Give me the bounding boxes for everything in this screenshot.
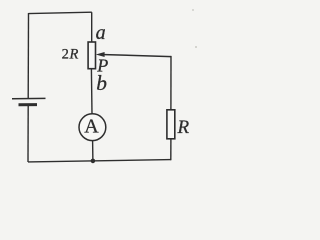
svg-text:R: R (177, 117, 190, 138)
svg-text:b: b (96, 71, 107, 95)
battery cell: short thick negative plate (19, 103, 38, 106)
resistor R body (167, 110, 175, 139)
wiper arrow of potentiometer (points at P) (96, 52, 105, 57)
wire: from top wire down to potentiometer terminal a (91, 12, 93, 42)
svg-text:A: A (84, 115, 99, 137)
potentiometer 2R body (88, 42, 95, 69)
wire: right branch down from wiper corner to resistor R (170, 56, 172, 110)
wire: top (battery + to potentiometer top a) (29, 12, 92, 13)
wire: resistor R to bottom wire (170, 139, 172, 160)
svg-text:2R: 2R (62, 47, 79, 63)
scan speckle right edge (192, 9, 194, 11)
wire: ammeter to bottom junction (92, 141, 94, 162)
junction dot on bottom wire (91, 159, 96, 164)
wire: wiper P to right branch (101, 55, 171, 57)
ammeter A (circle) (79, 114, 106, 141)
wire: bottom (28, 160, 171, 162)
scan speckle top right (195, 46, 197, 48)
wire: left upper (to battery) (27, 13, 29, 99)
wire: potentiometer terminal b down to ammeter (90, 69, 93, 114)
battery cell: long positive plate (12, 97, 46, 99)
wire: left lower (battery - to bottom wire) (27, 105, 29, 162)
svg-text:a: a (96, 22, 106, 44)
